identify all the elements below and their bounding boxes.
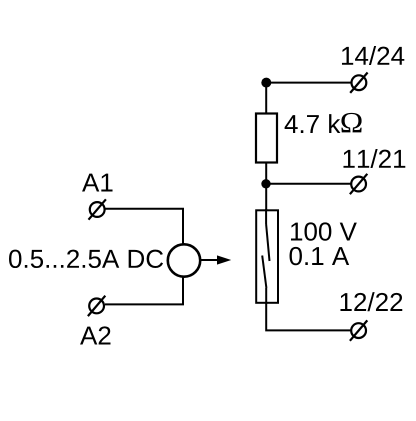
coil K1 (current relay coil) (168, 244, 200, 276)
arrow: coil actuates contact (201, 255, 231, 264)
node: top junction of rail and 14/24 wire (261, 78, 271, 88)
label 14/24 (342, 46, 404, 65)
wire: contact bottom to terminal 12/22 (266, 303, 351, 330)
resistor R1 4.7 kOhm (256, 114, 277, 163)
label 0.1 A (290, 247, 350, 265)
label Ohm symbol of resistor value (341, 113, 361, 133)
label 100 V (291, 222, 357, 240)
wire: middle horizontal to terminal 11/21 (266, 183, 351, 185)
wire: top horizontal to terminal 14/24 (266, 82, 351, 84)
wire: node down to resistor top (265, 83, 267, 114)
label A2 (80, 326, 110, 344)
wire: coil to A2 (105, 277, 183, 304)
wire: A1 to coil (106, 209, 184, 244)
label 12/22 (340, 292, 402, 311)
terminal A2 (88, 296, 105, 316)
wire: resistor bottom to contact top (265, 163, 267, 211)
label 4.7 k (resistor value) (285, 114, 341, 133)
label 0.5...2.5A DC (9, 250, 163, 268)
terminal 12/22 (350, 320, 367, 340)
node: middle junction to terminal 11/21 (261, 179, 270, 188)
terminal A1 (89, 199, 106, 219)
terminal 14/24 (350, 73, 367, 93)
label 11/21 (343, 149, 405, 168)
terminal 11/21 (350, 174, 367, 194)
reed contact S1 blades (262, 209, 269, 304)
label A1 (82, 174, 112, 192)
reed contact S1 (output switch, box outline) (256, 210, 278, 302)
